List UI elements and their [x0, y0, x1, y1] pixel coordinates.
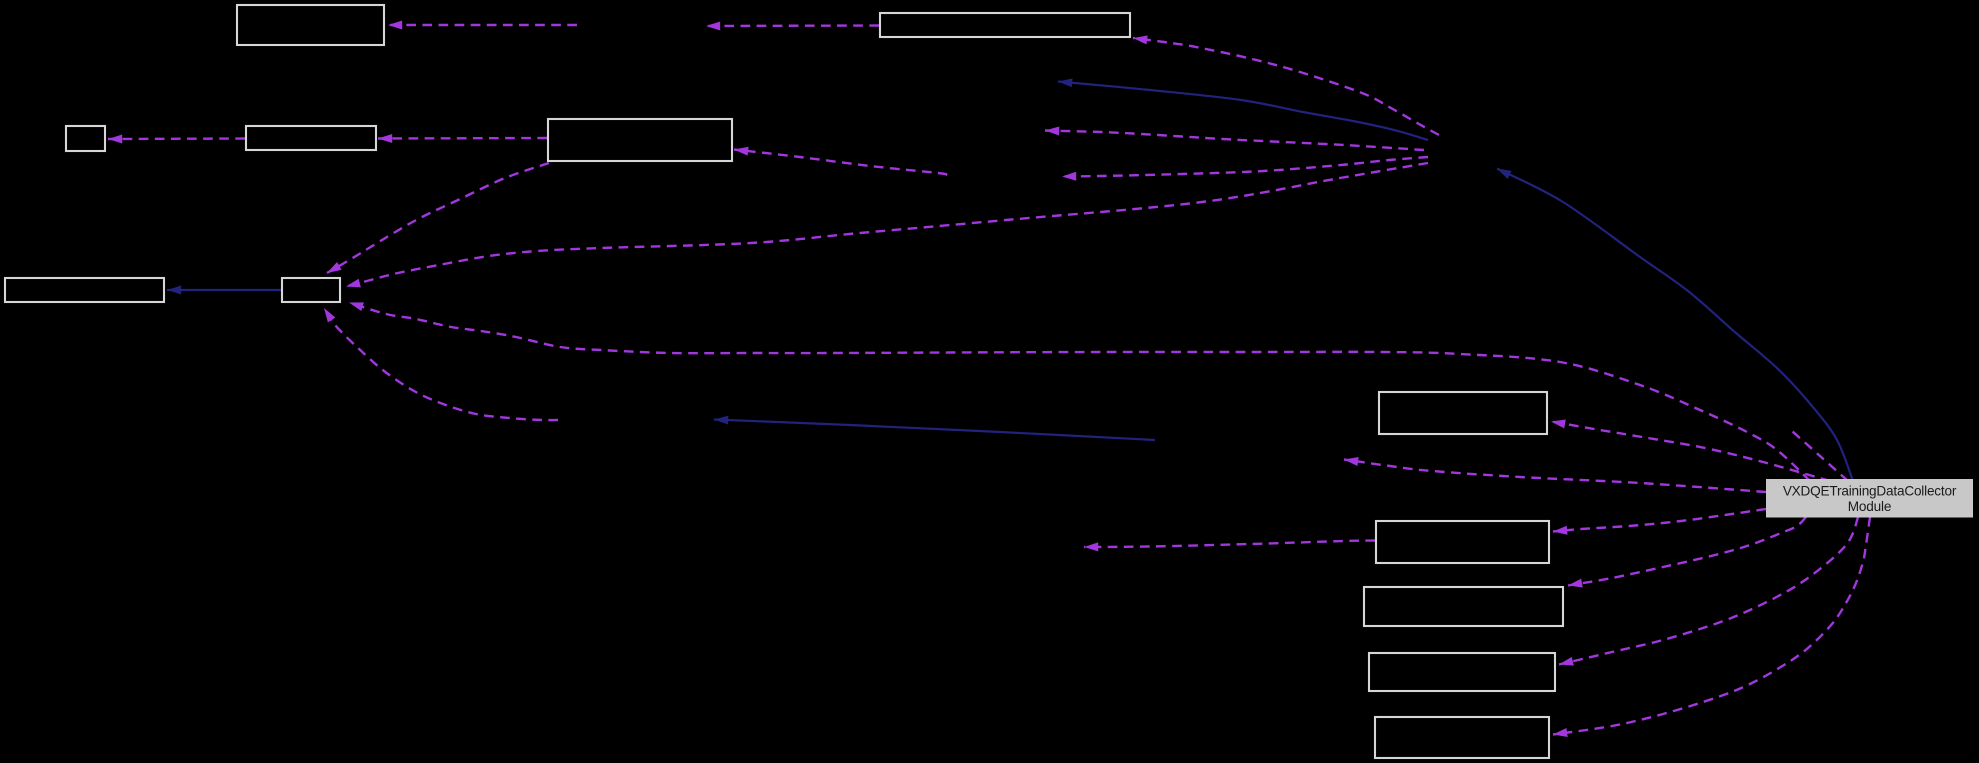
svg-text:Module: Module [1848, 499, 1891, 514]
svg-text:VXDQETrainingDataCollector: VXDQETrainingDataCollector [1783, 484, 1957, 499]
